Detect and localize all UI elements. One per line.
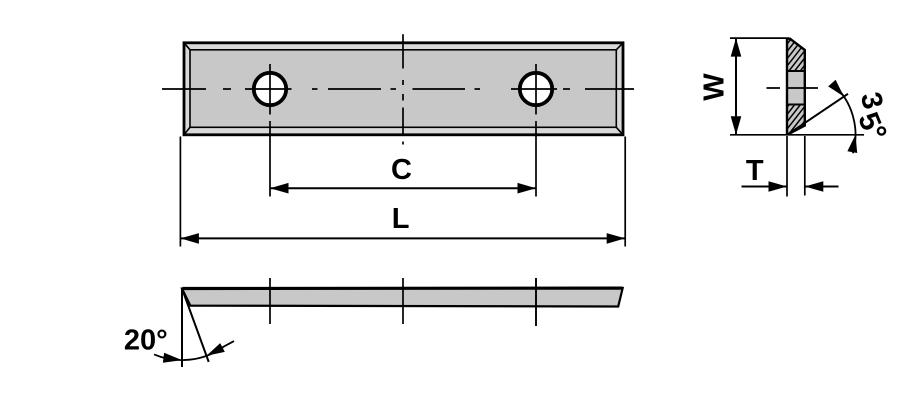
front view bevel inner outline (190, 50, 616, 128)
dimension W line (735, 38, 737, 135)
hole H2 (520, 73, 552, 105)
hole H1 (254, 73, 286, 105)
T extension line right (804, 136, 806, 196)
20 degree vertical reference line (181, 289, 183, 367)
20 degree arc left arrowhead (163, 353, 182, 363)
blade tick centerline middle (402, 278, 404, 324)
section hole boundary upper (787, 70, 805, 72)
dimension L line (180, 237, 625, 239)
W extension line top (730, 37, 789, 39)
svg-text:20°: 20° (124, 324, 168, 356)
L extension line right (624, 137, 626, 247)
dimension C right arrowhead (518, 183, 537, 194)
horizontal centerline (162, 88, 634, 90)
35 degree slope line (788, 94, 849, 135)
W extension line bottom / 35 deg baseline (730, 134, 864, 136)
section body outline (787, 39, 805, 134)
front view bevel corner line bottom-right (616, 127, 623, 135)
hole H2 crosshair (511, 64, 557, 115)
hole H1 crosshair (245, 64, 292, 115)
20 degree arc right arrowhead (207, 343, 225, 356)
C extension line from hole H2 (535, 121, 537, 197)
svg-text:C: C (391, 154, 412, 186)
section hatch lower (765, 102, 837, 136)
L extension line left (179, 137, 181, 247)
section hole boundary lower (787, 104, 805, 106)
front view insert body outline (184, 43, 623, 135)
front view bevel corner line top-left (184, 43, 190, 50)
dimension L left arrowhead (180, 233, 199, 244)
bottom view blade top edge (183, 287, 623, 291)
35 degree arc upper arrowhead (828, 80, 844, 97)
section centerline (767, 87, 819, 89)
C extension line from hole H1 (269, 121, 271, 197)
dimension C left arrowhead (270, 183, 289, 194)
20 degree arrow tail (209, 341, 234, 355)
35 degree arc (833, 84, 856, 153)
dimension L right arrowhead (607, 233, 626, 244)
dimension C line (270, 187, 536, 189)
svg-text:T: T (746, 155, 764, 187)
20 degree arc (154, 347, 223, 360)
bottom view blade body (182, 288, 623, 307)
label 35 degrees degree ring (878, 127, 885, 134)
dimension W bottom arrowhead (731, 116, 742, 135)
dimension T right line (805, 186, 839, 188)
vertical centerline (402, 34, 404, 144)
dimension T left arrowhead (769, 181, 788, 192)
dimension T right arrowhead (805, 181, 824, 192)
35 degree arc lower arrowhead (847, 135, 857, 153)
front view bevel corner line bottom-left (184, 127, 190, 135)
section hatch upper (765, 36, 840, 73)
dimension W top arrowhead (731, 38, 742, 57)
front view bevel corner line top-right (616, 43, 623, 50)
blade tick centerline right (535, 278, 537, 326)
blade tick centerline left (269, 278, 271, 324)
20 degree slope line (182, 289, 209, 362)
T extension line left (786, 136, 788, 197)
svg-text:W: W (699, 73, 731, 101)
dimension T left line (742, 186, 788, 188)
svg-text:L: L (392, 203, 410, 235)
